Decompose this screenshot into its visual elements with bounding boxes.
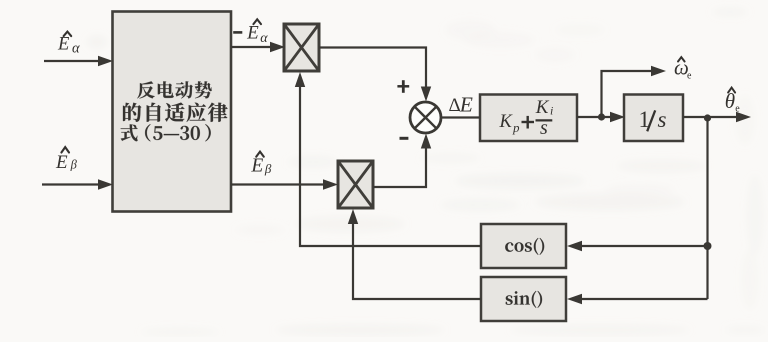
svg-text:e: e [687, 71, 692, 82]
svg-text:e: e [735, 103, 740, 114]
svg-text:β: β [264, 161, 272, 176]
svg-text:α: α [260, 31, 268, 46]
svg-text:E: E [459, 93, 473, 117]
svg-text:s: s [540, 117, 548, 139]
svg-text:s: s [658, 107, 667, 132]
svg-text:β: β [70, 157, 78, 171]
svg-text:E: E [250, 156, 263, 177]
svg-text:E: E [57, 35, 69, 55]
svg-text:E: E [55, 152, 68, 173]
svg-text:p: p [512, 120, 520, 135]
svg-text:E: E [246, 23, 259, 44]
svg-text:i: i [550, 104, 553, 118]
svg-text:K: K [535, 97, 550, 118]
svg-text:K: K [499, 112, 514, 132]
svg-text:α: α [72, 40, 80, 56]
svg-text:θ: θ [725, 89, 735, 113]
